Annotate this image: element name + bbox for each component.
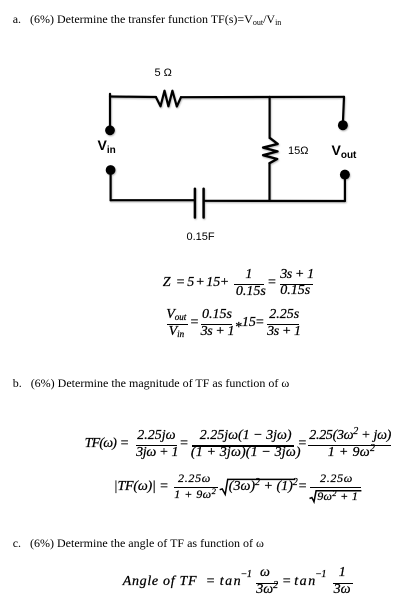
fraction 2.25jω(1−3jω)/((1+3jω)(1−3jω)) bar (192, 445, 295, 446)
capacitor C1 left plate (194, 189, 197, 218)
fraction 2.25ω/sqrt(9ω²+1) bar (310, 487, 361, 488)
denominator 9ω²+1 (317, 490, 358, 502)
heading a (13, 13, 282, 27)
node Vin+ terminal dot (105, 125, 115, 135)
fraction 0.15s/(3s+1) bar (201, 324, 232, 325)
wire left top stub (109, 94, 111, 126)
label 5Ω value (155, 67, 172, 79)
equation 3 (85, 437, 117, 451)
equation 5 (123, 575, 198, 589)
wire middle branch bottom (268, 163, 270, 200)
fraction 1/3ω bar (333, 583, 353, 584)
wire left bottom stub (109, 173, 111, 200)
fraction (3s+1)/0.15s bar (280, 284, 313, 285)
wire bottom rail left (111, 199, 195, 201)
fraction 2.25ω/(1+9ω²) bar (174, 487, 218, 488)
wire right bottom stub (344, 177, 346, 201)
fraction ω/3ω² bar (256, 583, 279, 584)
fraction Vout/Vin bar (167, 324, 188, 325)
heading c (13, 537, 264, 551)
equation 4 (114, 480, 156, 494)
label 15Ω value (288, 145, 308, 157)
asterisk operator (235, 321, 242, 335)
label Vin (98, 137, 116, 156)
heading b (13, 377, 290, 391)
label 0.15F value (187, 231, 215, 243)
wire top rail left (110, 95, 156, 98)
label Vout (332, 142, 357, 161)
fraction 2.25jω/(3jω+1) bar (136, 445, 177, 446)
fraction 2.25(3ω²+jω)/(1+9ω²) bar (308, 445, 391, 446)
wire top rail right of R1 (181, 96, 344, 99)
equation 1: Z = 5 + 15 + 1/0.15s = (3s+1)/0.15s (163, 276, 171, 290)
radicand (3ω)²+(1)² (229, 480, 298, 494)
node Vin- terminal dot (106, 165, 116, 175)
wire bottom rail right (204, 200, 345, 202)
wire middle branch top (269, 97, 271, 138)
node Vout- terminal dot (340, 170, 350, 180)
fraction 1/0.15s bar (234, 284, 264, 285)
wire right top stub (343, 97, 344, 121)
resistor R2 15Ω zigzag (263, 138, 278, 163)
resistor R1 5Ω zigzag (156, 91, 181, 107)
node Vout+ terminal dot (338, 120, 348, 130)
fraction 2.25s/(3s+1) bar (267, 324, 300, 325)
capacitor C1 right plate (202, 189, 205, 218)
